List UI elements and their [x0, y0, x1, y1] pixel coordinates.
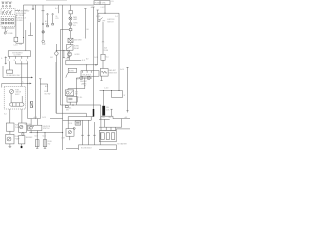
wire connector V91: [90, 117, 92, 121]
wire V97: [97, 10, 99, 65]
wire H120: [63, 119, 92, 121]
long wire V62: [62, 5, 64, 150]
wire bus right: [98, 12, 119, 14]
wire: [99, 119, 122, 128]
connector box: [69, 29, 72, 31]
wire grommet chain: [55, 44, 57, 113]
neutral safety module box: [67, 96, 77, 102]
svg-text:M-1: M-1: [50, 57, 53, 59]
node: [45, 132, 46, 133]
wire arrow H83: [2, 83, 30, 87]
backup lamp left: [80, 76, 83, 79]
wire stubs below: [31, 131, 37, 133]
svg-text:CLUSTER: CLUSTER: [13, 55, 21, 57]
wire: [69, 43, 71, 45]
svg-text:B-22: B-22: [24, 10, 27, 12]
connector tick: [32, 8, 34, 11]
injector 1: [35, 140, 39, 147]
park lamp L1: [69, 17, 72, 20]
fuse F8: [12, 22, 14, 24]
svg-text:S: S: [26, 60, 27, 62]
capacitor C1: [47, 25, 49, 27]
capacitor C2: [52, 23, 54, 25]
comb wires: [101, 127, 116, 130]
fuse F7: [8, 22, 10, 24]
wire step: [100, 129, 131, 131]
fuel sender box: [19, 123, 27, 132]
wire H118 mid: [50, 118, 63, 120]
wire to ignition switch: [97, 13, 99, 19]
wire: [101, 119, 104, 127]
wire corner: [55, 62, 57, 113]
svg-text:IGNITION: IGNITION: [43, 126, 51, 128]
divider: [99, 1, 101, 5]
right connector drop: [127, 67, 129, 113]
wire: [25, 30, 27, 51]
wire: [99, 132, 101, 145]
pin 3: [111, 133, 114, 140]
fuse F3: [8, 19, 10, 21]
wire: [11, 94, 22, 103]
injector 2 pin: [44, 140, 46, 147]
svg-text:F-4: F-4: [115, 16, 118, 18]
svg-text:PRNDL: PRNDL: [66, 108, 72, 110]
svg-text:FUEL: FUEL: [48, 141, 52, 143]
svg-text:SIDE MKR: SIDE MKR: [74, 39, 83, 41]
wire pair V47: [47, 15, 49, 25]
wire lamp right lead: [90, 77, 92, 79]
svg-text:LPS: LPS: [55, 18, 58, 20]
wire arrow H77: [3, 76, 31, 78]
connector mark: [65, 106, 68, 108]
switch S2: [6, 10, 9, 13]
fuse F4: [12, 19, 14, 21]
wire: [67, 120, 69, 128]
fuse F2: [5, 19, 7, 21]
wire corner: [67, 89, 69, 90]
wire courtesy feed: [15, 14, 17, 37]
wire V60: [59, 30, 61, 106]
svg-text:H/L: H/L: [87, 29, 90, 31]
wire stubs: [67, 95, 72, 98]
svg-text:HORN: HORN: [75, 54, 81, 56]
svg-text:COIL: COIL: [106, 109, 110, 111]
connector tick: [110, 108, 112, 110]
wire: [101, 76, 103, 80]
ecu comb wires: [83, 120, 95, 145]
svg-text:RESISTOR: RESISTOR: [109, 72, 118, 74]
wire loop: [112, 91, 123, 98]
wire H50 loop: [56, 49, 68, 51]
node: [23, 37, 24, 38]
resistor box W: [100, 69, 108, 77]
ignition coil (solid): [102, 106, 105, 116]
connector tick: [92, 6, 94, 8]
long wire V35: [35, 5, 37, 119]
resistor R1: [17, 10, 20, 12]
svg-text:B/U SW: B/U SW: [45, 94, 51, 96]
svg-text:H-4: H-4: [55, 8, 58, 10]
wire to coil bar: [103, 91, 105, 106]
wire: [111, 109, 113, 116]
svg-text:E-2: E-2: [4, 113, 7, 115]
grommet: [55, 52, 59, 56]
wire V100: [100, 105, 102, 119]
connector box: [69, 11, 72, 14]
svg-text:DIST: DIST: [61, 138, 65, 140]
injector 1 pin: [36, 140, 38, 147]
svg-text:B-11: B-11: [66, 58, 69, 60]
svg-text:B-24: B-24: [35, 136, 38, 138]
dome switch: [4, 31, 7, 34]
svg-text:C-110: C-110: [78, 97, 82, 99]
connector tick: [102, 41, 104, 43]
svg-text:B-11: B-11: [82, 60, 85, 62]
svg-text:B-2: B-2: [109, 117, 112, 119]
node: [111, 90, 112, 91]
ECU box: [79, 145, 117, 150]
grommet G: [42, 40, 45, 43]
wire H88: [68, 88, 85, 90]
wire T-stub: [63, 50, 65, 57]
svg-text:G-5: G-5: [106, 57, 109, 59]
node: [84, 85, 85, 86]
wire bottom edge: [99, 148, 116, 150]
connector tick: [97, 9, 99, 11]
svg-text:C-201: C-201: [13, 45, 17, 47]
wire: [69, 26, 71, 29]
headlamp chain: connector: [69, 5, 71, 11]
wire H113: [56, 113, 86, 116]
svg-text:COIL: COIL: [69, 123, 73, 125]
fuse tick: [42, 10, 45, 12]
node: [104, 13, 105, 14]
wire corner: [65, 60, 67, 65]
wire V40: [39, 79, 41, 119]
wire: [99, 118, 110, 120]
svg-text:B-6: B-6: [19, 44, 22, 46]
svg-text:2.5L: 2.5L: [111, 1, 114, 3]
wire H60: [66, 59, 81, 61]
svg-text:FUSE BLOCK: FUSE BLOCK: [16, 17, 27, 19]
sender lower box: [19, 136, 25, 144]
node: [37, 132, 38, 133]
connector tick: [100, 80, 102, 82]
wire bottom right H116: [101, 116, 130, 118]
svg-text:ECU MODULE: ECU MODULE: [81, 148, 92, 150]
svg-text:SENDER: SENDER: [26, 137, 33, 139]
wire stubs below cluster: [9, 56, 28, 58]
connector C-201: [14, 37, 18, 42]
ground wire G: [5, 56, 7, 64]
svg-text:B-9: B-9: [86, 58, 89, 60]
connector ring: [47, 14, 48, 15]
sender symbol: [20, 125, 23, 128]
wire bottom partial box: [66, 147, 78, 149]
wire: [69, 56, 71, 60]
svg-text:DOME: DOME: [8, 33, 13, 35]
wire: [69, 20, 71, 23]
injector 2: [43, 140, 47, 147]
wire ign feed: [102, 22, 104, 54]
lamp X: [69, 39, 73, 42]
node: [63, 50, 64, 51]
wire: [10, 109, 22, 123]
wire H116: [68, 116, 93, 118]
distributor box: [66, 129, 74, 137]
svg-text:8 FUSES: 8 FUSES: [16, 20, 23, 22]
connector tick: [39, 78, 41, 80]
connector box C-3: [7, 70, 13, 73]
wire between lamps: [83, 77, 87, 79]
main feed wire from bus: [24, 5, 95, 43]
capacitor marks: [42, 23, 44, 24]
node: [31, 132, 32, 133]
coil marks: [76, 122, 80, 124]
relay coil: [66, 91, 72, 95]
fuse row A: [2, 2, 11, 7]
wire stub: [28, 23, 33, 36]
node: [84, 78, 85, 79]
svg-text:C-113: C-113: [104, 88, 108, 90]
backup lamp right: [87, 76, 90, 79]
fuel pump relay box: [6, 123, 14, 131]
wire: [102, 60, 104, 68]
wire lamp mid lead: [84, 78, 86, 89]
voltage limiter capsule: [10, 103, 25, 106]
connector strip box: [100, 130, 117, 141]
wire: [100, 116, 102, 119]
node: [27, 83, 28, 84]
wire stubs into ign box: [31, 119, 37, 126]
fuel gauge box (dashed): [4, 87, 25, 110]
connector stub C-10: [32, 5, 34, 8]
wire: [16, 42, 24, 43]
switch S3: [9, 10, 12, 13]
fuse F6: [5, 22, 7, 24]
wire: [21, 144, 23, 146]
svg-text:C-101: C-101: [96, 16, 100, 18]
bus bar: [2, 27, 15, 29]
flex wire: [66, 72, 69, 77]
ground dot: [21, 146, 23, 148]
svg-text:INJ: INJ: [48, 143, 51, 145]
wire to resistor: [15, 10, 17, 12]
svg-text:F: F: [20, 60, 21, 62]
connector tick: [126, 68, 128, 111]
TCU box: [81, 71, 99, 77]
lamp L3: [42, 31, 45, 34]
shielded cable (thick): [93, 109, 95, 117]
wire lamp left lead: [76, 78, 79, 105]
rotor: [68, 131, 71, 134]
svg-text:FUSIBLE LINK: FUSIBLE LINK: [95, 2, 107, 4]
ground stubs: [36, 147, 46, 149]
wire H105 bus: [60, 104, 100, 106]
key symbol: [30, 126, 34, 129]
motor M: [7, 137, 11, 141]
connector tick: [84, 8, 86, 10]
svg-text:PUMP: PUMP: [15, 127, 20, 129]
injector drops: [37, 133, 45, 140]
svg-text:FUSE: FUSE: [104, 50, 108, 52]
cap ring: [73, 127, 75, 129]
node: [103, 90, 104, 91]
bus H132: [29, 132, 62, 134]
connector ticks: [81, 134, 96, 136]
svg-text:N/S: N/S: [75, 91, 78, 93]
svg-text:B+: B+: [22, 81, 24, 83]
wire: [69, 102, 71, 105]
wire tie: [16, 63, 28, 65]
node: [119, 90, 120, 91]
ground tick: [5, 58, 7, 64]
resistor W zigzag: [102, 71, 107, 73]
svg-text:IGNITION: IGNITION: [107, 19, 115, 21]
connector ring: [22, 133, 24, 135]
horn: [68, 52, 72, 56]
fuse F6 box: [101, 54, 105, 60]
ignition switch box: [28, 125, 42, 130]
arrowhead: [31, 77, 33, 79]
svg-text:B-25: B-25: [43, 136, 46, 138]
node: [86, 64, 87, 65]
wire H64: [66, 64, 98, 66]
coil box: [75, 121, 81, 125]
switch S1: [2, 10, 5, 13]
wire: [69, 31, 71, 38]
svg-text:B-3: B-3: [25, 124, 28, 126]
node: [56, 50, 57, 51]
node: [72, 104, 73, 105]
wire: [9, 131, 11, 134]
svg-text:C-4: C-4: [20, 126, 23, 128]
wire stubs: [9, 61, 40, 118]
fuse block box TR: [94, 1, 110, 5]
gauge M1: [10, 90, 14, 94]
instrument feed small box: [8, 51, 30, 57]
pin 2: [106, 133, 109, 140]
limiter marks: [13, 103, 20, 106]
connector X: [30, 102, 33, 108]
chain V85: [84, 9, 86, 39]
svg-text:B-13: B-13: [42, 117, 45, 119]
wire stub: [58, 5, 60, 13]
wire H29: [60, 29, 69, 31]
relay blade: [67, 46, 71, 49]
pin 1: [101, 133, 104, 140]
b/u relay box: [65, 90, 74, 96]
wire pair V52: [52, 15, 54, 24]
svg-text:C-107: C-107: [100, 7, 104, 9]
wire corner: [67, 117, 69, 121]
wire H84: [40, 84, 47, 92]
svg-text:B-7: B-7: [77, 79, 80, 81]
fuel pump motor box: [6, 134, 14, 144]
fuse F5: [2, 22, 4, 24]
svg-text:OFF: OFF: [102, 20, 105, 22]
fuse F1: [2, 19, 4, 21]
page edge line: [46, 0, 67, 2]
svg-text:ILL: ILL: [55, 16, 57, 18]
node: [62, 132, 63, 133]
arrowhead: [30, 83, 32, 85]
connector ring: [52, 14, 53, 15]
svg-text:SWITCH: SWITCH: [43, 128, 50, 130]
svg-text:M-4: M-4: [44, 91, 47, 93]
wire V43: [42, 5, 44, 40]
wire T-stub: [67, 50, 69, 57]
wire: [4, 27, 6, 32]
connector block (dashed) upper: [1, 8, 15, 14]
wire from fuse box: [104, 5, 106, 14]
horn feed box: [68, 68, 77, 72]
marker lamp box: [68, 38, 73, 42]
module marks: [68, 98, 72, 100]
wire: [69, 50, 71, 52]
svg-text:B-13: B-13: [94, 57, 97, 59]
horn relay box: [66, 45, 73, 51]
turn lamp L2: [69, 22, 72, 25]
wire: [2, 66, 4, 77]
wire H-bus 90.5: [100, 90, 123, 92]
wire V93: [93, 7, 95, 109]
wire: [69, 14, 71, 17]
svg-text:B-1: B-1: [102, 117, 105, 119]
ground: [9, 144, 12, 148]
arrowhead: [96, 64, 98, 66]
svg-text:B: B: [14, 60, 15, 62]
wire: [86, 65, 88, 71]
svg-text:FUEL: FUEL: [15, 89, 19, 91]
svg-text:SWITCH: SWITCH: [107, 21, 114, 23]
connector block (dashed) lower: [1, 16, 15, 26]
ignition switch SW1: [98, 18, 103, 22]
wire: [69, 136, 71, 140]
wire right drop: [118, 13, 120, 90]
pins: [83, 71, 92, 73]
svg-text:INSTRUMENT: INSTRUMENT: [12, 53, 22, 55]
